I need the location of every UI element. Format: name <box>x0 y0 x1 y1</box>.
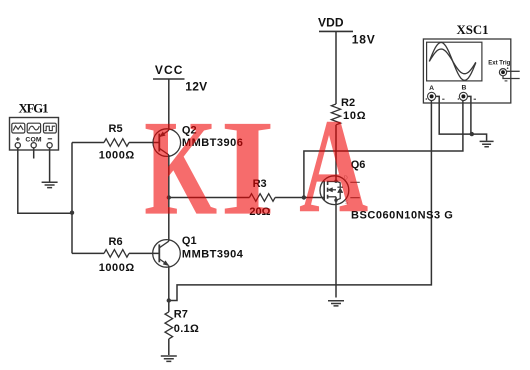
wire output node jog to scope channel A <box>169 101 432 301</box>
watermark I <box>220 99 275 236</box>
scope terminal B <box>458 92 476 100</box>
XFG1 terminals <box>15 143 52 148</box>
resistor R6 <box>104 250 129 258</box>
svg-text:COM: COM <box>25 136 42 143</box>
wire Q2 collector to Q1 collector <box>168 155 170 241</box>
function generator XFG1 <box>10 118 59 151</box>
resistor R7 <box>165 312 173 339</box>
junction node XFG to R5/R6 <box>70 211 74 215</box>
scope terminal A <box>426 92 445 100</box>
svg-text:18V: 18V <box>352 33 375 47</box>
resistor R2 <box>331 104 340 125</box>
svg-text:VCC: VCC <box>155 63 183 77</box>
XFG1 plus minus marks <box>16 137 52 141</box>
wire R2 to Q6 drain <box>335 125 337 181</box>
junction node gate <box>302 195 306 199</box>
power VCC rail bar <box>153 78 185 80</box>
resistor R3 <box>249 194 275 202</box>
wire R5 leads <box>72 142 159 144</box>
junction node driver output <box>167 195 171 199</box>
transistor Q6 power MOSFET <box>320 176 360 205</box>
svg-text:XFG1: XFG1 <box>19 102 49 116</box>
wire XFG1 COM stub <box>33 148 35 159</box>
wire R6 leads <box>72 252 159 254</box>
wire ground node to scope ground <box>472 134 487 141</box>
ground under Q6 source <box>328 301 344 306</box>
scope trace outer <box>429 42 476 80</box>
wire VCC to Q2 emitter <box>168 79 170 130</box>
oscilloscope XSC1 <box>423 39 510 103</box>
junction node emitter R7 <box>167 298 171 302</box>
Q6 grey pin names <box>344 176 349 207</box>
wire Q6 source to ground <box>335 197 337 298</box>
ground scope <box>480 141 494 146</box>
resistor R5 <box>104 139 129 147</box>
svg-text:B: B <box>462 85 467 92</box>
wire scope A minus hook to ground node <box>436 96 472 134</box>
power VDD rail bar <box>319 30 353 32</box>
scope trace inner <box>429 49 476 74</box>
wire R7 leads <box>168 301 170 356</box>
svg-text:A: A <box>429 85 434 92</box>
wire node to R3 and gate <box>169 197 324 199</box>
wire gate node up and right to scope channel B <box>304 101 463 198</box>
scope terminal Ext Trig <box>499 67 519 81</box>
svg-text:Ext Trig: Ext Trig <box>488 61 510 67</box>
wire XFG1 minus to ground <box>49 148 51 182</box>
transistor Q2 <box>153 129 181 157</box>
wire left rail R5/R6 <box>71 143 73 254</box>
svg-text:R7: R7 <box>174 308 188 320</box>
svg-text:R5: R5 <box>109 123 123 135</box>
watermark K <box>144 99 217 236</box>
svg-text:1000Ω: 1000Ω <box>99 150 135 162</box>
ground under R7 <box>161 356 177 361</box>
svg-text:VDD: VDD <box>318 16 344 30</box>
ground under XFG1 <box>42 182 58 187</box>
svg-text:0.1Ω: 0.1Ω <box>174 323 199 335</box>
wire XFG1 plus output down and right to node <box>18 147 72 213</box>
wire scope B minus hook to ground node <box>468 96 471 134</box>
wire VDD to R2 <box>335 31 337 104</box>
wire Q1 emitter down to node <box>168 266 170 301</box>
svg-text:R6: R6 <box>109 236 123 248</box>
watermark A <box>299 98 368 233</box>
junction node scope grounds <box>470 132 474 136</box>
svg-text:MMBT3904: MMBT3904 <box>182 249 244 261</box>
transistor Q1 <box>153 240 181 268</box>
svg-text:1000Ω: 1000Ω <box>99 262 135 274</box>
svg-text:XSC1: XSC1 <box>457 23 489 37</box>
